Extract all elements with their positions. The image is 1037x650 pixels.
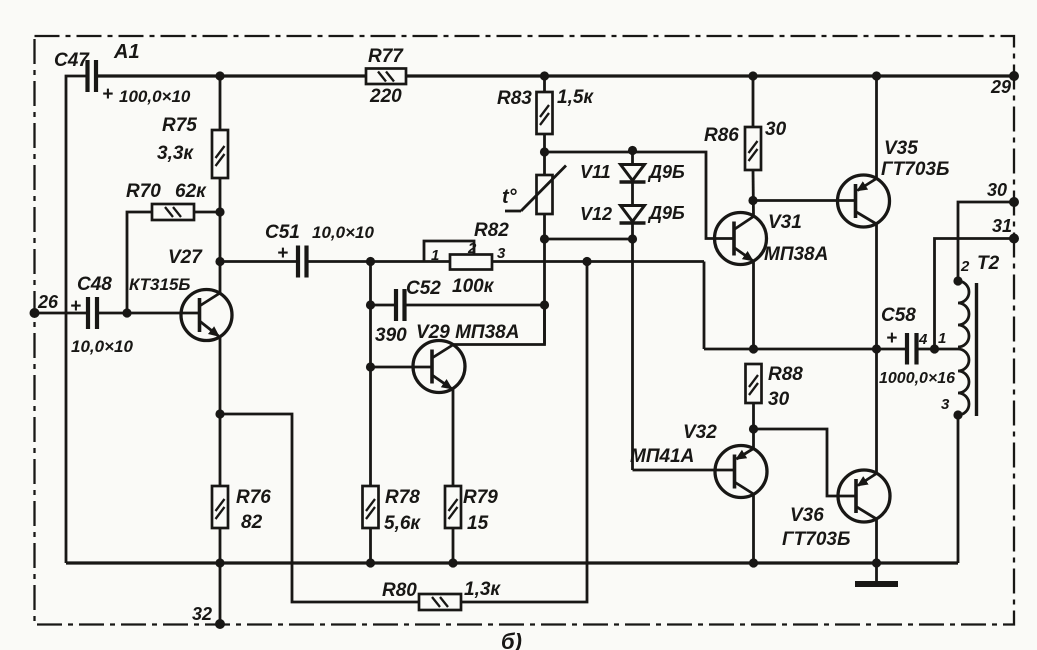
resistor R76 — [212, 486, 228, 528]
wire C51 coupling line y=261.5 — [220, 260, 298, 263]
svg-text:Т2: Т2 — [977, 253, 1000, 274]
resistor R80 — [419, 594, 461, 610]
junction feedback R80 riser — [582, 257, 591, 266]
svg-text:V29 МП38А: V29 МП38А — [416, 322, 519, 343]
svg-text:3: 3 — [497, 245, 506, 262]
svg-text:31: 31 — [992, 216, 1012, 236]
junction diode chain top — [628, 146, 637, 155]
transformer T2 winding upper half — [958, 281, 969, 347]
svg-text:С47: С47 — [54, 50, 90, 71]
diode V11 — [620, 151, 646, 183]
wire diode top feed y=152 — [545, 152, 735, 239]
junction emitter / feedback takeoff — [215, 409, 224, 418]
svg-text:V32: V32 — [683, 422, 717, 443]
resistor R78 — [363, 486, 379, 528]
wire riser down to y=349 rail — [703, 262, 706, 350]
ground bus wire y=563 — [66, 561, 958, 564]
junction node31 riser at C58 — [930, 344, 939, 353]
junction at x=370.5 on C51 wire — [366, 257, 375, 266]
wire R83 top — [543, 76, 546, 92]
wire R82 pin3 to the right — [492, 260, 704, 263]
wire R86 bottom to V31 collector — [752, 170, 755, 216]
T2 pin 3 terminal — [953, 410, 962, 419]
svg-text:15: 15 — [467, 513, 489, 534]
svg-text:t°: t° — [502, 186, 518, 208]
svg-text:+: + — [277, 243, 288, 264]
junction on top bus at R83 column — [540, 71, 549, 80]
ground symbol — [855, 563, 898, 584]
svg-text:R86: R86 — [704, 125, 739, 146]
wire R79 bottom — [452, 528, 455, 563]
wire V32 collector down to ground bus — [752, 494, 755, 563]
left return wire from C47 down to ground bus — [66, 76, 88, 563]
wire V35 collector down to V36 emitter — [875, 224, 878, 474]
svg-text:390: 390 — [375, 325, 407, 346]
wire V27 emitter down — [219, 337, 222, 486]
svg-text:С51: С51 — [265, 222, 300, 243]
svg-text:82: 82 — [241, 512, 263, 533]
junction R76 at ground bus — [215, 558, 224, 567]
junction thermistor bottom / diode bottom wire — [540, 234, 549, 243]
svg-text:A1: A1 — [113, 41, 140, 63]
svg-text:+: + — [70, 296, 81, 317]
junction R78 at ground bus — [366, 558, 375, 567]
node 32 — [215, 619, 225, 629]
svg-text:МП38А: МП38А — [764, 244, 828, 265]
svg-text:б): б) — [501, 629, 522, 650]
wire feedback: emitter V27 to R80 — [220, 414, 419, 602]
wire T2 pin3 down to ground bus — [957, 415, 960, 563]
node 30 — [1009, 197, 1019, 207]
transistor V35 — [838, 175, 890, 227]
capacitor C51 — [298, 246, 307, 278]
wire rail y=349 (R82 riser to C58) — [704, 348, 907, 351]
junction R83/thermistor/diode feed — [540, 147, 549, 156]
junction R79 at ground bus — [448, 558, 457, 567]
svg-text:3: 3 — [941, 396, 950, 413]
resistor R83 — [537, 92, 553, 134]
svg-text:100к: 100к — [452, 276, 495, 297]
wire R78 bottom — [369, 528, 372, 563]
svg-text:V11: V11 — [580, 162, 611, 182]
svg-text:30: 30 — [987, 180, 1007, 200]
svg-text:R79: R79 — [463, 487, 498, 508]
wire R88 bottom — [752, 403, 755, 449]
svg-text:62к: 62к — [175, 181, 207, 202]
potentiometer R82 (rheostat) — [424, 241, 492, 270]
wire R76 bottom to ground bus and node 32 — [219, 528, 222, 624]
diode V12 — [620, 182, 646, 223]
capacitor C58 — [907, 333, 917, 365]
wire C48 to V27 base — [97, 312, 200, 315]
svg-text:30: 30 — [768, 389, 790, 410]
svg-text:32: 32 — [192, 604, 212, 624]
junction V27 collector to C51 wire — [215, 257, 224, 266]
junction V29 base — [366, 362, 375, 371]
wire R80 right up to R82 output node — [461, 262, 587, 603]
svg-text:ГТ703Б: ГТ703Б — [782, 529, 850, 550]
svg-text:С52: С52 — [406, 278, 441, 299]
resistor R86 — [745, 127, 761, 170]
junction R70 leg at base wire — [122, 308, 131, 317]
svg-text:1: 1 — [431, 247, 439, 264]
wire R70 left terminal down to base wire — [127, 212, 152, 313]
wire thermistor bottom down across to C52 node — [543, 214, 546, 345]
junction R70 right at R75 column — [215, 207, 224, 216]
top supply bus wire y=76 — [96, 74, 366, 77]
node 31 — [1009, 234, 1019, 244]
wire node 31 riser — [935, 239, 1015, 350]
svg-text:30: 30 — [765, 119, 787, 140]
svg-text:МП41А: МП41А — [630, 446, 694, 467]
svg-text:ГТ703Б: ГТ703Б — [881, 159, 949, 180]
capacitor C48 — [88, 297, 97, 329]
wire R86 top — [752, 76, 755, 127]
wire V31 emitter down to rail y=349 — [752, 261, 755, 350]
svg-text:R75: R75 — [162, 115, 197, 136]
resistor R75 — [212, 130, 228, 178]
svg-text:1: 1 — [938, 330, 946, 347]
capacitor C52 — [396, 289, 405, 321]
wire V36 collector down to ground bus — [875, 519, 878, 563]
junction C52 left — [366, 300, 375, 309]
transistor V27 — [181, 290, 232, 341]
svg-text:220: 220 — [369, 86, 402, 107]
wire C51 to R82 — [307, 260, 451, 263]
node 26 — [30, 308, 40, 318]
svg-text:V31: V31 — [768, 212, 802, 233]
junction on top bus at V35 emitter — [872, 71, 881, 80]
svg-text:10,0×10: 10,0×10 — [71, 337, 133, 356]
wire node 30 to T2 pin2 — [958, 202, 1014, 281]
transistor V36 — [838, 470, 890, 522]
junction C52/R83 column — [540, 300, 549, 309]
wire node 26 to C48 — [35, 312, 89, 315]
junction V35 collector / V36 emitter / C58 — [872, 344, 881, 353]
svg-text:V36: V36 — [790, 505, 824, 526]
junction V35 base / V31 collector — [748, 196, 757, 205]
wire R83 bottom to thermistor — [543, 134, 546, 175]
wire R77 right to node 29 — [406, 74, 1014, 77]
wire R75 column top (bus to R75) — [219, 76, 222, 130]
svg-text:R76: R76 — [236, 487, 271, 508]
svg-text:1000,0×16: 1000,0×16 — [879, 370, 955, 387]
svg-text:V27: V27 — [168, 247, 203, 268]
svg-text:4: 4 — [918, 331, 928, 348]
wire C58 right to T2 tap — [917, 348, 959, 351]
wire V36 base path — [754, 429, 857, 496]
wire V32 base — [633, 469, 735, 472]
svg-text:R80: R80 — [382, 580, 417, 601]
svg-text:V12: V12 — [580, 204, 612, 224]
wire V35 base — [753, 199, 856, 202]
resistor R79 — [445, 486, 461, 528]
wire V29 base — [371, 366, 433, 369]
junction V31 emitter / R88 top — [749, 344, 758, 353]
svg-text:R88: R88 — [768, 364, 803, 385]
svg-text:R70: R70 — [126, 181, 161, 202]
svg-text:2: 2 — [467, 240, 477, 257]
svg-text:R82: R82 — [474, 220, 509, 241]
svg-text:+: + — [102, 84, 113, 105]
junction diode chain bottom — [628, 234, 637, 243]
node 29 — [1009, 71, 1019, 81]
wire V29 emitter down to R79 — [452, 388, 455, 486]
T2 core — [975, 283, 978, 416]
T2 pin 2 terminal — [953, 276, 962, 285]
capacitor C47 — [88, 60, 97, 92]
wire C52 left stub — [371, 304, 397, 307]
svg-text:КТ315Б: КТ315Б — [129, 275, 190, 294]
svg-text:С58: С58 — [881, 305, 916, 326]
svg-text:С48: С48 — [77, 274, 112, 295]
wire R70 right terminal — [194, 211, 220, 214]
svg-text:Д9Б: Д9Б — [647, 162, 685, 182]
wire C52 right to thermistor column — [405, 304, 545, 307]
svg-text:26: 26 — [37, 292, 59, 312]
transformer T2 winding lower half — [958, 349, 969, 415]
junction on top bus at R86 column — [748, 71, 757, 80]
svg-text:2: 2 — [960, 258, 970, 275]
junction V32 collector at ground bus — [749, 558, 758, 567]
svg-text:1,5к: 1,5к — [557, 87, 594, 108]
svg-text:5,6к: 5,6к — [384, 513, 421, 534]
resistor R88 — [746, 364, 762, 403]
transistor V32 — [715, 446, 767, 498]
svg-text:Д9Б: Д9Б — [647, 203, 685, 223]
resistor R70 — [152, 204, 194, 220]
wire diode bottom y=239 — [545, 238, 633, 241]
wire V35 emitter up to top bus — [875, 76, 878, 179]
svg-text:3,3к: 3,3к — [157, 143, 194, 164]
junction V36 collector at ground bus — [872, 558, 881, 567]
wire V29 collector to C52 node — [454, 305, 545, 345]
resistor R77 — [366, 69, 406, 85]
svg-text:100,0×10: 100,0×10 — [119, 87, 191, 106]
thermistor RK (t) — [505, 166, 566, 215]
transistor V31 — [715, 213, 767, 265]
svg-text:29: 29 — [990, 77, 1011, 97]
svg-text:R83: R83 — [497, 88, 532, 109]
junction R88 / V32 emitter / V36 base wire — [749, 424, 758, 433]
svg-text:V35: V35 — [884, 138, 918, 159]
wire diode chain down to V32 base — [631, 223, 634, 470]
svg-text:R78: R78 — [385, 487, 420, 508]
junction on top bus at R75 column — [215, 71, 224, 80]
svg-text:R77: R77 — [368, 46, 404, 67]
wire x=370.5 column down to R78 — [369, 262, 372, 487]
wire R75 bottom to V27 collector — [219, 178, 222, 294]
svg-text:+: + — [886, 328, 897, 349]
svg-text:1,3к: 1,3к — [464, 579, 501, 600]
transistor V29 — [413, 341, 465, 393]
svg-text:10,0×10: 10,0×10 — [312, 223, 374, 242]
